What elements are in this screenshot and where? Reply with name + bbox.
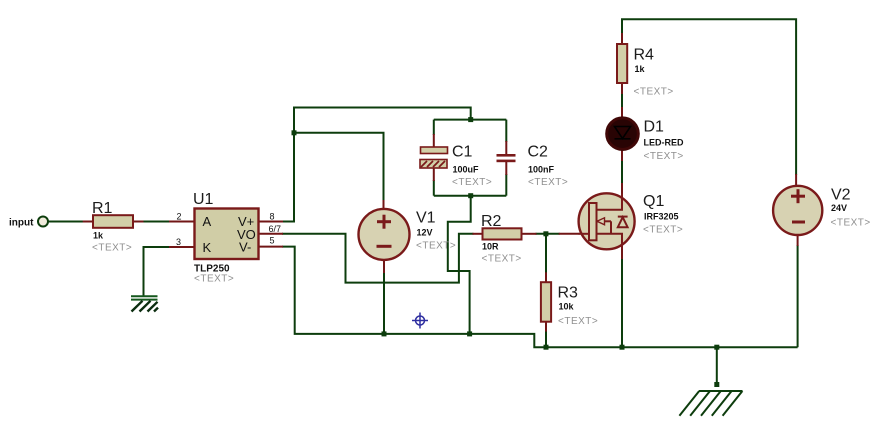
svg-text:D1: D1	[644, 119, 665, 136]
resistor R1	[93, 215, 133, 228]
wire input to R1	[48, 221, 84, 223]
wire top supply rail to V2	[622, 19, 796, 175]
V2 labels	[831, 187, 871, 229]
junction gate node	[543, 231, 548, 236]
svg-text:input: input	[9, 218, 34, 229]
svg-text:K: K	[203, 240, 212, 255]
svg-text:<TEXT>: <TEXT>	[416, 240, 456, 251]
svg-text:R4: R4	[634, 47, 655, 64]
svg-text:<TEXT>: <TEXT>	[482, 254, 522, 265]
svg-text:<TEXT>: <TEXT>	[558, 316, 598, 327]
pin R2 left lead	[473, 233, 484, 235]
drain tap	[597, 194, 623, 210]
svg-text:24V: 24V	[831, 203, 847, 213]
pin V2 minus lead	[797, 235, 799, 247]
junction cap link on rail	[467, 331, 472, 336]
svg-text:IRF3205: IRF3205	[644, 211, 679, 221]
pin V1 minus lead	[383, 259, 385, 273]
pin V1 plus lead	[383, 200, 385, 210]
svg-text:U1: U1	[193, 191, 214, 208]
wire R3 bottom to rail	[545, 331, 547, 348]
svg-text:1k: 1k	[93, 230, 104, 240]
pin D1 anode lead	[621, 107, 623, 119]
ground (power rail, bottom right)	[679, 382, 742, 416]
battery V1	[359, 209, 410, 260]
junction ground stem on rail	[714, 345, 719, 350]
pin U1.5 stub	[258, 246, 283, 248]
wire U1 pin 8 (V+) up and over to cap rail	[282, 108, 471, 222]
bulk arrow line	[598, 220, 612, 222]
svg-text:100nF: 100nF	[528, 164, 555, 174]
svg-text:<TEXT>: <TEXT>	[831, 217, 871, 228]
junction cap rail top	[468, 117, 473, 122]
svg-text:10k: 10k	[559, 301, 575, 311]
svg-text:V-: V-	[239, 240, 251, 255]
wire ground stem bottom right	[716, 347, 718, 384]
svg-text:Q1: Q1	[643, 193, 664, 210]
wire V2 minus down to rail	[797, 245, 799, 347]
junction V1 minus on rail	[382, 331, 387, 336]
U1 pin numbers	[176, 212, 281, 247]
wire V1 minus down to V- rail	[383, 272, 385, 334]
input terminal	[38, 217, 48, 227]
wire VO (pin 6/7) to R2 left	[282, 234, 474, 283]
gate plate	[589, 203, 597, 240]
pin U1.3 stub	[169, 246, 195, 248]
diode D1 LED-RED	[607, 118, 639, 150]
wire V+ branch to V1 plus	[294, 133, 384, 202]
capacitor C1 top plate	[421, 147, 448, 154]
wire C2 top lead	[505, 120, 507, 142]
svg-text:<TEXT>: <TEXT>	[634, 87, 674, 98]
body diode	[618, 217, 628, 227]
pin C2 top lead	[505, 141, 507, 155]
junction Q1 source on rail	[620, 345, 625, 350]
R3 labels	[558, 285, 599, 328]
wire U1 pin 5 (V-) to source rail	[282, 247, 798, 348]
svg-text:2: 2	[177, 212, 182, 222]
svg-text:A: A	[203, 214, 212, 229]
pin C1 bottom lead	[433, 167, 435, 181]
junction R3 bottom on rail	[544, 345, 549, 350]
pin D1 cathode lead	[621, 149, 623, 161]
U1 pin names	[203, 214, 256, 255]
wire cap bottom rail down to V- rail	[448, 196, 471, 334]
wire Q1 source down to rail	[621, 258, 623, 347]
pin R4 bottom lead	[621, 82, 623, 94]
pin R3 top lead	[545, 272, 547, 283]
wire C1 C2 bottom rail	[434, 195, 507, 197]
op-amp U1 TLP250 body	[195, 209, 259, 260]
junction V+ branch	[292, 130, 297, 135]
svg-text:<TEXT>: <TEXT>	[644, 151, 684, 162]
svg-text:<TEXT>: <TEXT>	[643, 225, 683, 236]
svg-text:5: 5	[270, 236, 275, 246]
resistor R2	[483, 228, 522, 239]
svg-text:<TEXT>: <TEXT>	[92, 243, 132, 254]
pin C1 top lead	[433, 134, 435, 148]
wire C1 top lead	[433, 120, 435, 135]
origin marker	[412, 313, 428, 329]
wire C1 bottom lead	[433, 180, 435, 196]
pin R3 bottom lead	[545, 321, 547, 332]
pin V2 plus lead	[795, 174, 797, 187]
capacitor C1 bottom plate (polarised hatch)	[420, 160, 447, 169]
pin Q1 gate lead	[559, 233, 580, 235]
svg-text:1k: 1k	[635, 64, 646, 74]
source tap	[597, 234, 623, 249]
svg-text:10R: 10R	[482, 241, 499, 251]
junction cap rail bottom	[468, 193, 473, 198]
wire R2 right to gate node	[536, 233, 560, 235]
resistor R4	[617, 44, 627, 83]
pin U1.2 stub	[169, 221, 195, 223]
svg-text:V1: V1	[416, 210, 436, 227]
svg-text:C1: C1	[452, 144, 473, 161]
pin R1 right lead	[132, 221, 144, 223]
wire gate node down to R3 top	[545, 234, 547, 273]
R1 labels	[92, 200, 132, 254]
wire D1 bottom to Q1 drain	[621, 160, 623, 184]
wire C2 bottom lead	[505, 174, 507, 196]
svg-text:<TEXT>: <TEXT>	[194, 274, 234, 285]
svg-text:R3: R3	[558, 285, 579, 302]
pin C2 bottom lead	[505, 161, 507, 175]
pin Q1 drain lead	[621, 183, 623, 194]
transistor Q1 IRF3205	[579, 193, 635, 249]
wire U1 pin 3 (K) to ground	[144, 247, 171, 297]
svg-text:<TEXT>: <TEXT>	[452, 177, 492, 188]
pin R2 right lead	[521, 233, 537, 235]
battery V2	[773, 186, 822, 235]
resistor R3	[541, 282, 551, 322]
svg-text:R2: R2	[481, 213, 502, 230]
capacitor C2 plates	[497, 154, 516, 162]
pin U1.6/7 stub	[258, 233, 283, 235]
bulk arrow head	[597, 218, 605, 225]
R4 labels	[634, 47, 674, 98]
pin R1 left lead	[83, 221, 94, 223]
svg-text:100uF: 100uF	[453, 164, 480, 174]
svg-text:<TEXT>: <TEXT>	[528, 177, 568, 188]
C2 labels	[528, 144, 569, 189]
wire R1 to U1 pin 2	[142, 221, 170, 223]
svg-text:6/7: 6/7	[269, 224, 282, 234]
svg-text:LED-RED: LED-RED	[644, 138, 684, 148]
C1 labels	[452, 144, 492, 189]
D1 labels	[644, 119, 684, 163]
svg-text:V2: V2	[831, 187, 851, 204]
svg-text:8: 8	[270, 212, 275, 222]
V1 labels	[416, 210, 456, 252]
pin R4 top lead	[621, 33, 623, 45]
pin Q1 source lead	[621, 249, 623, 260]
svg-text:12V: 12V	[417, 228, 433, 238]
wire R4 bottom to D1 top	[621, 93, 623, 108]
pin U1.8 stub	[258, 221, 283, 223]
R2 labels	[481, 213, 522, 265]
Q1 labels	[643, 193, 683, 236]
svg-text:3: 3	[176, 237, 181, 247]
wire C1 C2 top rail	[434, 119, 507, 121]
U1 labels	[193, 191, 234, 285]
svg-text:R1: R1	[92, 200, 113, 217]
svg-text:C2: C2	[528, 144, 549, 161]
gate internal lead	[579, 233, 589, 235]
ground (under U1 pin K)	[131, 296, 158, 311]
